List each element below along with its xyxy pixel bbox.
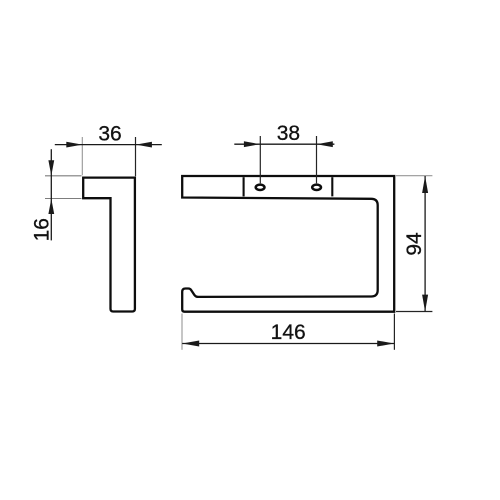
svg-text:38: 38 [277,122,300,145]
svg-text:36: 36 [98,123,121,146]
svg-text:94: 94 [403,232,426,256]
svg-text:16: 16 [31,218,54,241]
svg-text:146: 146 [271,321,306,344]
